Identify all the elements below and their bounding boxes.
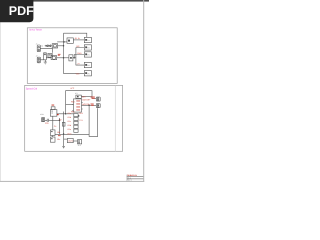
svg-text:RX1: RX1: [79, 112, 83, 115]
resistor R6 above IC: [76, 95, 81, 98]
label ic pin name 4: [76, 109, 80, 112]
connector B1: [84, 37, 91, 42]
connector B2: [84, 45, 91, 50]
svg-text:PB3: PB3: [71, 101, 75, 104]
lower circuit red labels: [45, 87, 95, 143]
lamp LA1: [51, 56, 57, 60]
svg-text:PDF: PDF: [9, 4, 34, 18]
wire left vert rails: [59, 112, 63, 147]
sheet frame lower: [25, 85, 123, 151]
svg-text:Rev 1: Rev 1: [127, 179, 131, 182]
PDF badge: [0, 0, 34, 22]
wire ic right a: [92, 97, 96, 99]
diode pair D2: [45, 45, 53, 47]
svg-text:D1b: D1b: [68, 116, 71, 119]
wire bottom rail: [55, 133, 89, 135]
svg-text:IC1: IC1: [75, 92, 78, 95]
relay K1: [50, 110, 57, 117]
svg-text:10u: 10u: [57, 138, 60, 141]
connector J2: [37, 57, 40, 63]
wire B2 branch: [76, 48, 84, 66]
page right border: [143, 0, 144, 182]
sheet frame upper: [27, 28, 117, 84]
svg-text:D1c: D1c: [68, 120, 71, 123]
svg-text:R2: R2: [59, 118, 61, 121]
lower junction dots: [59, 105, 90, 135]
ground lower rail: [62, 146, 65, 148]
svg-text:Servo Tester: Servo Tester: [29, 29, 42, 32]
svg-text:MOTOR+: MOTOR+: [82, 99, 91, 102]
svg-text:GND: GND: [67, 133, 72, 136]
junction dot 4: [63, 57, 65, 59]
label R4: [58, 53, 61, 56]
label R4 value: [58, 54, 60, 57]
connector J6: [78, 140, 82, 144]
svg-text:VCC: VCC: [70, 87, 75, 90]
junction dot 9: [88, 105, 90, 107]
connector J1: [37, 45, 40, 52]
svg-text:C23: C23: [45, 122, 48, 125]
regulator U2: [44, 53, 47, 60]
wire caps row: [50, 119, 60, 121]
svg-text:OUT2: OUT2: [68, 140, 73, 143]
svg-text:D1e: D1e: [68, 128, 71, 131]
fold line lower sheet: [114, 85, 116, 151]
wire J1 row: [40, 49, 52, 53]
IC U3: [72, 99, 83, 112]
svg-text:J2: J2: [36, 55, 38, 58]
upper circuit red labels: [58, 37, 90, 75]
diode column D1: [74, 114, 78, 133]
IC box A: [67, 38, 73, 43]
page left border: [0, 0, 2, 182]
svg-text:R1 1k: R1 1k: [75, 37, 80, 40]
junction dot 8: [78, 115, 80, 117]
svg-text:VCC: VCC: [76, 73, 81, 76]
wire small box right: [81, 96, 92, 98]
label k1 top: [52, 104, 55, 107]
wire crystal to rail: [58, 45, 64, 47]
title block: [127, 174, 144, 182]
crystal Y1: [52, 44, 57, 48]
junction dot 5: [65, 113, 67, 115]
wire lamp to box B: [57, 57, 69, 59]
label j4 mark: [91, 103, 94, 106]
svg-text:J1: J1: [36, 42, 38, 45]
wire box A left: [57, 41, 67, 43]
wire left rail: [64, 33, 85, 73]
connector J4: [96, 104, 100, 108]
wire lamp input: [46, 57, 51, 59]
resistor R2: [51, 107, 55, 110]
wire ic pin stub: [66, 104, 74, 106]
label ic pin name 3: [76, 106, 80, 109]
junction dot 1: [63, 41, 65, 43]
wire J5 left: [64, 138, 68, 140]
junction dot 2: [63, 45, 65, 47]
connector B4: [84, 62, 91, 67]
junction dot 7: [59, 120, 61, 122]
resistor R5 on rail: [62, 122, 65, 126]
lower circuit gray labels: [40, 92, 81, 147]
wire J5 to J6: [73, 140, 77, 142]
upper circuit gray labels: [36, 42, 44, 57]
upper junction dots: [63, 41, 75, 58]
wire vcc loop: [66, 91, 92, 114]
junction dot 6: [63, 133, 65, 135]
svg-text:D1d: D1d: [68, 124, 71, 127]
junction dot 5: [73, 57, 75, 59]
label k1 right: [57, 114, 59, 115]
label ic pin name 2: [76, 103, 80, 106]
title block left edge: [126, 175, 129, 182]
wire J2 stub: [40, 59, 45, 61]
title block line2: [127, 178, 144, 181]
connector B3: [84, 52, 91, 57]
ground: [44, 60, 47, 64]
svg-text:10u: 10u: [57, 131, 60, 134]
label rail left: [58, 134, 61, 137]
connector J7: [42, 118, 45, 122]
wire top bus to B1: [64, 33, 87, 37]
wire ic right b: [82, 104, 97, 106]
page background: [0, 0, 149, 198]
title block line1: [127, 175, 144, 178]
wire B3 branch: [74, 55, 84, 58]
page bottom border: [0, 181, 144, 182]
wire box B out: [73, 57, 76, 59]
wire box A right to B1: [73, 39, 84, 41]
svg-text:J6-2: J6-2: [78, 144, 81, 147]
label j3 mark: [91, 96, 95, 99]
connector J3: [96, 97, 100, 101]
switch S1: [48, 53, 52, 57]
connector B5: [84, 71, 91, 76]
svg-text:1N4: 1N4: [40, 45, 43, 48]
svg-text:GND: GND: [77, 52, 82, 55]
svg-text:PB4: PB4: [71, 110, 75, 113]
page top border: [0, 0, 149, 2]
label ic pin name 1: [76, 100, 80, 103]
capacitor C4: [50, 130, 55, 137]
IC box B: [69, 55, 73, 61]
wire loop right: [89, 105, 98, 136]
svg-text:SIG: SIG: [76, 45, 80, 48]
wire K1 to C4: [52, 116, 54, 130]
connector J5: [67, 138, 73, 142]
capacitor C5: [50, 137, 55, 142]
svg-text:TX1: TX1: [79, 119, 82, 122]
svg-text:MOTOR-: MOTOR-: [82, 103, 90, 106]
svg-text:Speed Ctrl: Speed Ctrl: [26, 87, 38, 90]
capacitor C2: [45, 119, 50, 122]
wire mid horizontal: [57, 113, 74, 115]
svg-text:C4: C4: [54, 125, 56, 128]
